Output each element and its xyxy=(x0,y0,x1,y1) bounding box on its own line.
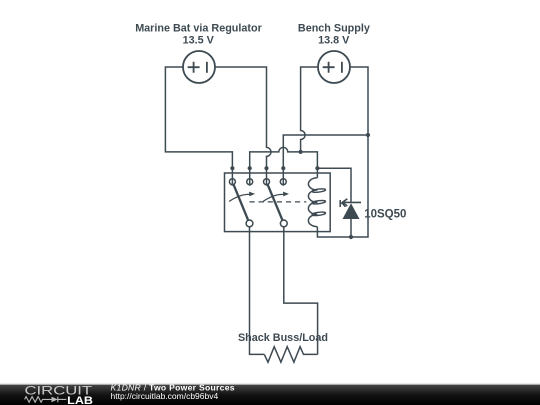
svg-text:http://circuitlab.com/cb96bv4: http://circuitlab.com/cb96bv4 xyxy=(111,391,219,401)
relay actuation arrow pole 1 xyxy=(229,192,255,202)
relay contact circle 4 xyxy=(280,179,286,185)
svg-text:Bench Supply: Bench Supply xyxy=(298,23,370,35)
junction dot contact1 pin xyxy=(230,166,234,170)
junction node D1 bench+ on H2 xyxy=(299,150,303,154)
wire diode anode stub xyxy=(350,219,352,237)
svg-text:LAB: LAB xyxy=(67,395,93,405)
wire coil top to diode cathode xyxy=(317,168,351,202)
relay K1 box xyxy=(225,173,331,232)
junction dot contact4 pin xyxy=(281,166,285,170)
junction node diode anode xyxy=(349,235,353,239)
wire relay common 1 down to resistor left xyxy=(250,227,265,355)
svg-text:K: K xyxy=(339,198,347,210)
wire Bench+ terminal down (hop over H1) to node D1 xyxy=(301,67,318,152)
svg-text:13.5 V: 13.5 V xyxy=(183,35,215,47)
wire Marine+ terminal to relay contact 1 xyxy=(165,67,232,186)
relay switch arm pole 2 xyxy=(268,185,283,220)
relay contact circle 3 xyxy=(264,179,270,185)
relay contact circle 1 xyxy=(229,179,235,185)
svg-text:Marine Bat via Regulator: Marine Bat via Regulator xyxy=(135,23,262,35)
voltage source V1 Marine Bat via Regulator xyxy=(183,51,215,83)
diode D1 10SQ50 xyxy=(342,199,361,219)
relay common circle 1 xyxy=(246,220,253,227)
junction node bench- on H1 xyxy=(366,133,370,137)
svg-text:13.8 V: 13.8 V xyxy=(318,35,350,47)
wire H2: relay contact 2 to coil top (hop over V2) xyxy=(250,147,318,185)
wire resistor right to relay common 2 xyxy=(284,227,318,355)
footer shadow xyxy=(0,383,540,385)
svg-text:Shack Buss/Load: Shack Buss/Load xyxy=(238,332,328,344)
relay linkage dashed line xyxy=(250,201,307,203)
footer bar xyxy=(0,385,540,405)
logo resistor-diode doodle xyxy=(25,397,67,403)
relay contact circle 2 xyxy=(247,179,253,185)
wire Bench- terminal down to coil bottom xyxy=(317,67,368,237)
relay switch arm pole 1 xyxy=(234,185,249,220)
voltage source V2 Bench Supply xyxy=(318,51,350,83)
junction dot contact2 pin xyxy=(248,166,252,170)
relay common circle 2 xyxy=(280,220,287,227)
relay actuation arrow pole 2 xyxy=(263,192,289,202)
resistor R1 Shack Buss/Load xyxy=(264,347,317,363)
relay coil xyxy=(308,178,325,227)
wire Marine- terminal to relay contact 3 (hop over H2) xyxy=(215,67,271,186)
svg-text:10SQ50: 10SQ50 xyxy=(364,208,406,220)
wire H1/V2: bench- branch to relay contact 4 xyxy=(283,135,368,186)
junction dot contact3 pin xyxy=(264,166,268,170)
junction dot coil pin xyxy=(315,166,319,170)
